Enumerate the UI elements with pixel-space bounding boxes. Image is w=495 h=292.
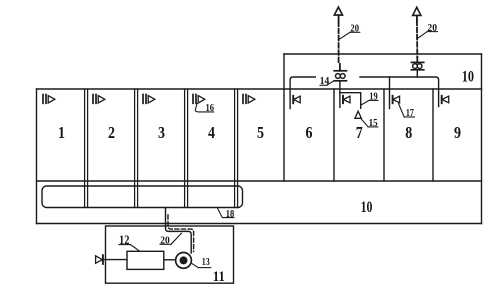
leader 12 (119, 245, 140, 252)
diffuser 15 (355, 111, 362, 118)
outer tank right wall (481, 54, 483, 224)
cell wall 4|5 double (235, 89, 238, 208)
svg-text:11: 11 (213, 269, 225, 285)
nozzle cell 4 (193, 95, 205, 104)
filter to pump line (164, 259, 176, 261)
gas pipe right segment (360, 77, 439, 107)
cell 7 diffuser branch pipe (340, 93, 361, 109)
upper gas box 10 left edge / cell 5-6 wall (283, 54, 285, 181)
drain drop pipe to pump (166, 208, 192, 254)
flame arrester right (411, 62, 423, 69)
svg-text:18: 18 (226, 209, 235, 220)
upper gas box 10 top edge (284, 53, 482, 55)
leader 20 right vent (417, 32, 438, 39)
inlet valve (96, 255, 103, 264)
cell wall 2|3 double (135, 89, 138, 208)
upper gas box 10 bottom edge / cells 6-9 top (284, 88, 482, 90)
backwash line 20 dashed (168, 215, 194, 252)
svg-text:20: 20 (350, 23, 359, 35)
svg-text:2: 2 (108, 123, 115, 142)
svg-text:9: 9 (454, 123, 461, 142)
backwash manifold 18 (42, 186, 243, 208)
nozzle cell 5 (243, 95, 255, 104)
valve cell 7 (343, 96, 350, 103)
svg-text:12: 12 (119, 233, 130, 247)
cell wall 6|7 (333, 89, 335, 181)
svg-text:10: 10 (462, 69, 474, 86)
valve cell 6 (293, 96, 300, 103)
outer tank left wall (36, 89, 38, 224)
gas pipe left segment (290, 77, 315, 109)
cells bottom edge / channel 10 top (37, 180, 482, 182)
valve cell 8 (393, 96, 400, 103)
vent arrow left (334, 7, 342, 15)
nozzle cell 1 (43, 95, 55, 104)
arrester connector to pipe right (416, 70, 418, 77)
leader 15 (361, 119, 378, 127)
leader 18 (218, 208, 234, 217)
leader 19 (362, 100, 379, 104)
svg-text:20: 20 (427, 22, 437, 34)
cell wall 1|2 double (85, 89, 88, 208)
valve cell 9 (442, 96, 449, 103)
cell wall 8|9 (432, 89, 434, 181)
cell wall 3|4 double (185, 89, 188, 208)
svg-text:8: 8 (405, 123, 412, 142)
nozzle cell 3 (143, 95, 155, 104)
filter 12 (127, 251, 164, 269)
nozzle cell 2 (93, 95, 105, 104)
svg-text:7: 7 (356, 123, 363, 142)
svg-text:6: 6 (306, 123, 313, 142)
vent riser left solid stub (339, 64, 341, 71)
svg-text:17: 17 (406, 108, 414, 119)
svg-text:5: 5 (257, 123, 264, 142)
svg-text:3: 3 (158, 123, 165, 142)
cell wall 7|8 (383, 89, 385, 181)
leader 20 pump line (160, 233, 181, 244)
svg-text:1: 1 (58, 123, 65, 142)
leader 17 (399, 104, 415, 118)
svg-text:15: 15 (369, 117, 378, 129)
leader 16 (195, 104, 214, 112)
svg-text:4: 4 (208, 123, 215, 142)
svg-text:14: 14 (320, 75, 330, 87)
cell 8 drop pipe (389, 77, 391, 109)
vent riser left dashed (338, 22, 340, 65)
vent riser right dashed (416, 21, 418, 58)
channel 10 bottom edge (37, 223, 482, 225)
svg-text:19: 19 (369, 91, 378, 103)
vent arrow right (413, 7, 421, 15)
pump 13 (176, 253, 192, 269)
svg-text:20: 20 (160, 235, 170, 247)
leader 13 (192, 264, 211, 268)
svg-text:16: 16 (206, 102, 215, 114)
cell 7 drop pipe below arrester (339, 81, 341, 108)
svg-text:10: 10 (361, 199, 373, 216)
cells 1-5 top edge (37, 88, 285, 90)
svg-text:13: 13 (202, 257, 210, 268)
pump box 11 (106, 226, 234, 283)
vent riser right solid stub (416, 57, 418, 62)
leader 14 (320, 81, 334, 86)
inlet line (103, 259, 127, 261)
leader 20 left vent (339, 32, 360, 39)
flame arrester 14 (334, 71, 346, 81)
